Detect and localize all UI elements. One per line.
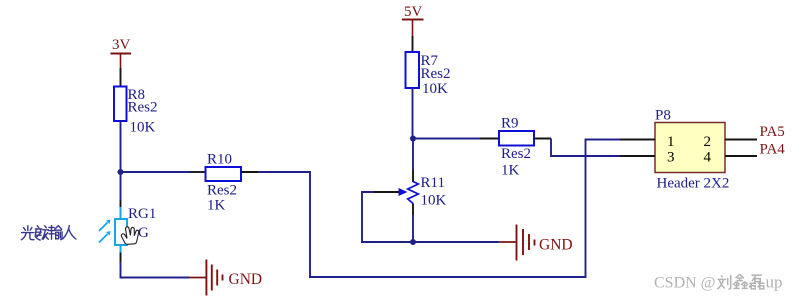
- pin R8.1: [120, 68, 122, 86]
- wire node C to GND: [413, 241, 499, 243]
- resistor R7: [406, 52, 451, 97]
- pin R11.1: [412, 170, 414, 182]
- svg-text:Res2: Res2: [128, 100, 158, 116]
- wire R10 to header pin 1: [258, 140, 620, 278]
- pin R9.2: [534, 138, 551, 140]
- svg-text:2: 2: [704, 134, 712, 150]
- ground GND (middle): [499, 225, 573, 261]
- pin R10.1: [190, 171, 206, 173]
- svg-text:3: 3: [667, 150, 675, 166]
- wire R9 to header pin 3: [551, 139, 620, 157]
- pin R9.1: [480, 138, 499, 140]
- junction node A: [118, 169, 124, 175]
- pin R10.2: [241, 171, 258, 173]
- wire R11 to node C: [412, 215, 414, 242]
- resistor R10: [206, 152, 242, 214]
- wire node A to R10: [121, 171, 191, 173]
- svg-text:1K: 1K: [207, 198, 226, 214]
- pin P8.1: [620, 139, 655, 141]
- svg-text:4: 4: [704, 150, 712, 166]
- svg-text:P8: P8: [655, 108, 671, 124]
- svg-text:G: G: [138, 225, 149, 241]
- svg-text:R11: R11: [421, 175, 445, 191]
- svg-text:PA4: PA4: [760, 142, 786, 158]
- wire node B down to R11: [412, 139, 414, 171]
- pin RG1.2: [120, 253, 122, 263]
- svg-text:PA5: PA5: [760, 124, 785, 140]
- svg-text:R9: R9: [501, 116, 519, 132]
- svg-text:GND: GND: [229, 271, 263, 288]
- wire node B to R9: [413, 138, 480, 140]
- watermark CSDN: [654, 273, 783, 292]
- svg-text:10K: 10K: [422, 81, 448, 97]
- svg-text:RG1: RG1: [128, 206, 156, 222]
- potentiometer R11: [374, 175, 447, 209]
- pin P8.4: [725, 155, 757, 157]
- wire R11 wiper loop: [362, 192, 413, 242]
- wire node A down to RG1: [120, 172, 122, 200]
- resistor R8: [114, 87, 158, 136]
- pin P8.3: [620, 155, 655, 157]
- junction node B: [410, 136, 416, 142]
- svg-text:1K: 1K: [501, 163, 520, 179]
- power port 3V: [111, 37, 132, 68]
- pin R7.1: [412, 36, 414, 52]
- pin R11.2: [412, 204, 414, 216]
- svg-text:GND: GND: [539, 237, 573, 254]
- svg-text:Res2: Res2: [501, 146, 531, 162]
- svg-text:10K: 10K: [130, 120, 156, 136]
- pin RG1.1: [120, 200, 122, 207]
- svg-text:5V: 5V: [404, 4, 423, 20]
- resistor R9: [499, 116, 534, 179]
- svg-text:CSDN @: CSDN @: [654, 275, 715, 292]
- svg-text:Res2: Res2: [421, 66, 451, 82]
- wire R8 to node A: [120, 121, 122, 172]
- text 光敏输入: [21, 226, 76, 241]
- wire RG1 to GND: [121, 262, 190, 278]
- svg-text:1: 1: [667, 134, 675, 150]
- svg-text:up: up: [766, 273, 783, 292]
- svg-text:Header 2X2: Header 2X2: [657, 176, 730, 192]
- mouse hand cursor: [121, 227, 138, 244]
- connector P8: [655, 108, 729, 192]
- svg-text:R10: R10: [207, 152, 232, 168]
- photoresistor RG1: [99, 206, 156, 253]
- pin P8.2: [725, 139, 757, 141]
- svg-text:Res2: Res2: [207, 183, 237, 199]
- power port 5V: [402, 4, 424, 36]
- ground GND (left): [189, 260, 262, 296]
- svg-text:3V: 3V: [112, 37, 131, 53]
- junction node C: [410, 239, 416, 245]
- wire R7 to node B: [412, 88, 414, 139]
- svg-text:10K: 10K: [421, 193, 447, 209]
